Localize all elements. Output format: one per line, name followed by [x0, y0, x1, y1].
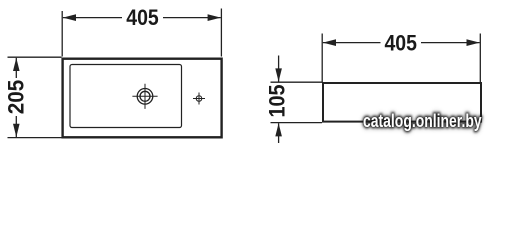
overflow hole circle	[196, 96, 202, 102]
top dim 405 left arrowhead	[63, 14, 76, 21]
top dim 405 left extension line	[61, 11, 63, 57]
svg-text:405: 405	[384, 30, 417, 55]
side dim 405 left arrowhead	[323, 39, 336, 46]
faucet hole crosshair horizontal	[132, 95, 157, 97]
side dim 105 bottom extension line	[271, 122, 323, 124]
faucet hole inner circle	[140, 91, 150, 101]
left dim 205 dimension line bottom segment	[15, 116, 17, 137]
overflow hole crosshair vertical	[198, 93, 200, 105]
watermark catalog.onliner.by outer glow	[363, 112, 482, 130]
side view body rectangle	[323, 83, 481, 122]
side dim 405 dimension line right segment	[421, 42, 480, 44]
svg-text:105: 105	[265, 85, 290, 118]
faucet hole outer circle	[137, 89, 153, 105]
side dim 105 bottom arrow tail	[278, 123, 280, 143]
top dim 405 dimension line left segment	[63, 17, 122, 19]
left dim 205 dimension line top segment	[15, 58, 17, 78]
basin top view outer rim	[63, 59, 222, 138]
left dim 205 top arrowhead	[13, 58, 20, 71]
top dim 405 right arrowhead	[208, 14, 221, 21]
left dim 205 bottom arrowhead	[13, 124, 20, 137]
overflow hole crosshair horizontal	[193, 98, 205, 100]
svg-text:205: 205	[3, 80, 28, 115]
top dim 405 dimension line right segment	[163, 17, 221, 19]
side dim 105 bottom arrowhead pointing up	[275, 123, 282, 136]
side dim 105 top arrow tail	[278, 56, 280, 82]
side dim 405 dimension line left segment	[323, 42, 381, 44]
watermark catalog.onliner.by	[363, 112, 482, 130]
watermark catalog.onliner.by shadow	[363, 112, 482, 130]
side dim 405 left extension line	[321, 34, 323, 83]
basin top view inner bowl	[70, 65, 182, 128]
left dim 205 bottom extension line	[8, 137, 62, 139]
svg-text:405: 405	[126, 5, 159, 30]
top dim 405 right extension line	[220, 9, 222, 57]
left dim 205 top extension line	[8, 56, 62, 58]
side dim 405 right extension line	[479, 34, 481, 83]
side dim 105 top arrowhead pointing down	[275, 68, 282, 81]
faucet hole crosshair vertical	[144, 84, 146, 109]
side dim 105 top extension line	[271, 81, 323, 83]
side dim 405 right arrowhead	[467, 39, 480, 46]
